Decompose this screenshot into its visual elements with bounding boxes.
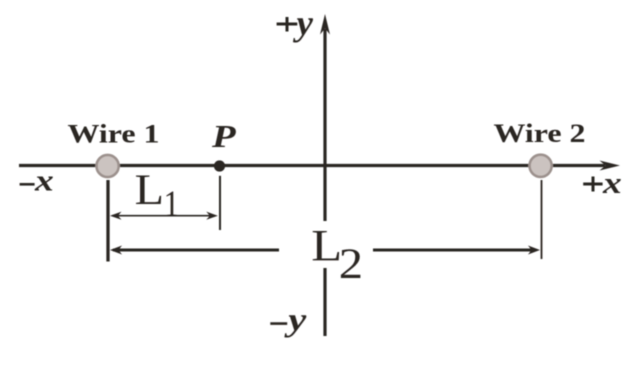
svg-text:2: 2 [339,239,363,287]
label +x : plus sign [583,183,602,186]
label -x : minus sign [20,183,35,186]
point P dot [214,160,225,171]
y axis arrowhead [320,14,330,35]
label +y : plus sign [277,23,298,26]
x axis [19,164,605,167]
L2 dimension line left segment [113,249,279,252]
L1 left arrowhead [110,212,122,220]
svg-text:P: P [211,118,236,154]
label -y : minus sign [270,322,287,325]
svg-text:Wire 2: Wire 2 [494,120,586,149]
wire2 extension line [541,180,543,259]
svg-text:x: x [34,163,54,197]
wire 1 circle [97,155,119,177]
svg-text:L: L [311,222,342,270]
svg-text:x: x [602,166,622,200]
svg-text:Wire 1: Wire 1 [68,120,160,149]
L2 dimension line right segment [373,249,535,252]
L1 right arrowhead [206,212,218,220]
y axis lower [323,268,326,336]
svg-text:1: 1 [164,183,180,224]
wire1 extension line [106,180,109,262]
x axis arrowhead [600,161,621,171]
wire 2 circle [530,155,552,177]
svg-text:y: y [293,3,314,43]
svg-text:L: L [135,165,164,213]
svg-text:y: y [284,301,307,338]
P extension line [219,176,221,230]
y axis upper [323,29,326,221]
L1 dimension line [112,215,214,217]
L2 left arrowhead [110,246,122,255]
L2 right arrowhead [528,246,540,255]
